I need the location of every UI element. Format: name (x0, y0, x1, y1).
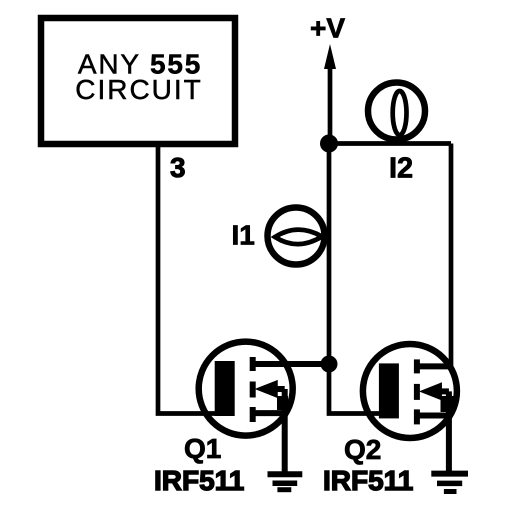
node junction dot at Q1 drain (321, 356, 338, 373)
transistor Q1 (IRF511 MOSFET) (199, 342, 329, 472)
ground for Q2 (431, 474, 468, 492)
svg-text:I1: I1 (232, 220, 255, 251)
wire Q1 drain node to Q2 gate (329, 364, 392, 414)
ground for Q1 (268, 474, 303, 489)
wire center rail (327, 144, 332, 365)
svg-text:Q1: Q1 (184, 433, 221, 464)
lamp I1 (268, 208, 325, 265)
wire +V rail to I2 (329, 141, 451, 146)
svg-text:Q2: Q2 (344, 434, 381, 465)
lamp I2 (368, 83, 425, 140)
svg-text:IRF511: IRF511 (154, 465, 244, 496)
node junction dot at +V rail (320, 135, 338, 153)
svg-text:+V: +V (310, 13, 345, 44)
svg-text:I2: I2 (389, 153, 413, 185)
wire I2 to Q2 drain (449, 144, 454, 367)
transistor Q2 (IRF511 MOSFET) (363, 344, 457, 471)
svg-text:IRF511: IRF511 (323, 465, 413, 496)
+V supply arrow (328, 62, 333, 143)
wire pin3 from box to Q1 gate (158, 147, 218, 414)
svg-text:3: 3 (170, 152, 186, 183)
svg-text:CIRCUIT: CIRCUIT (75, 74, 203, 105)
555 block box (41, 18, 235, 144)
